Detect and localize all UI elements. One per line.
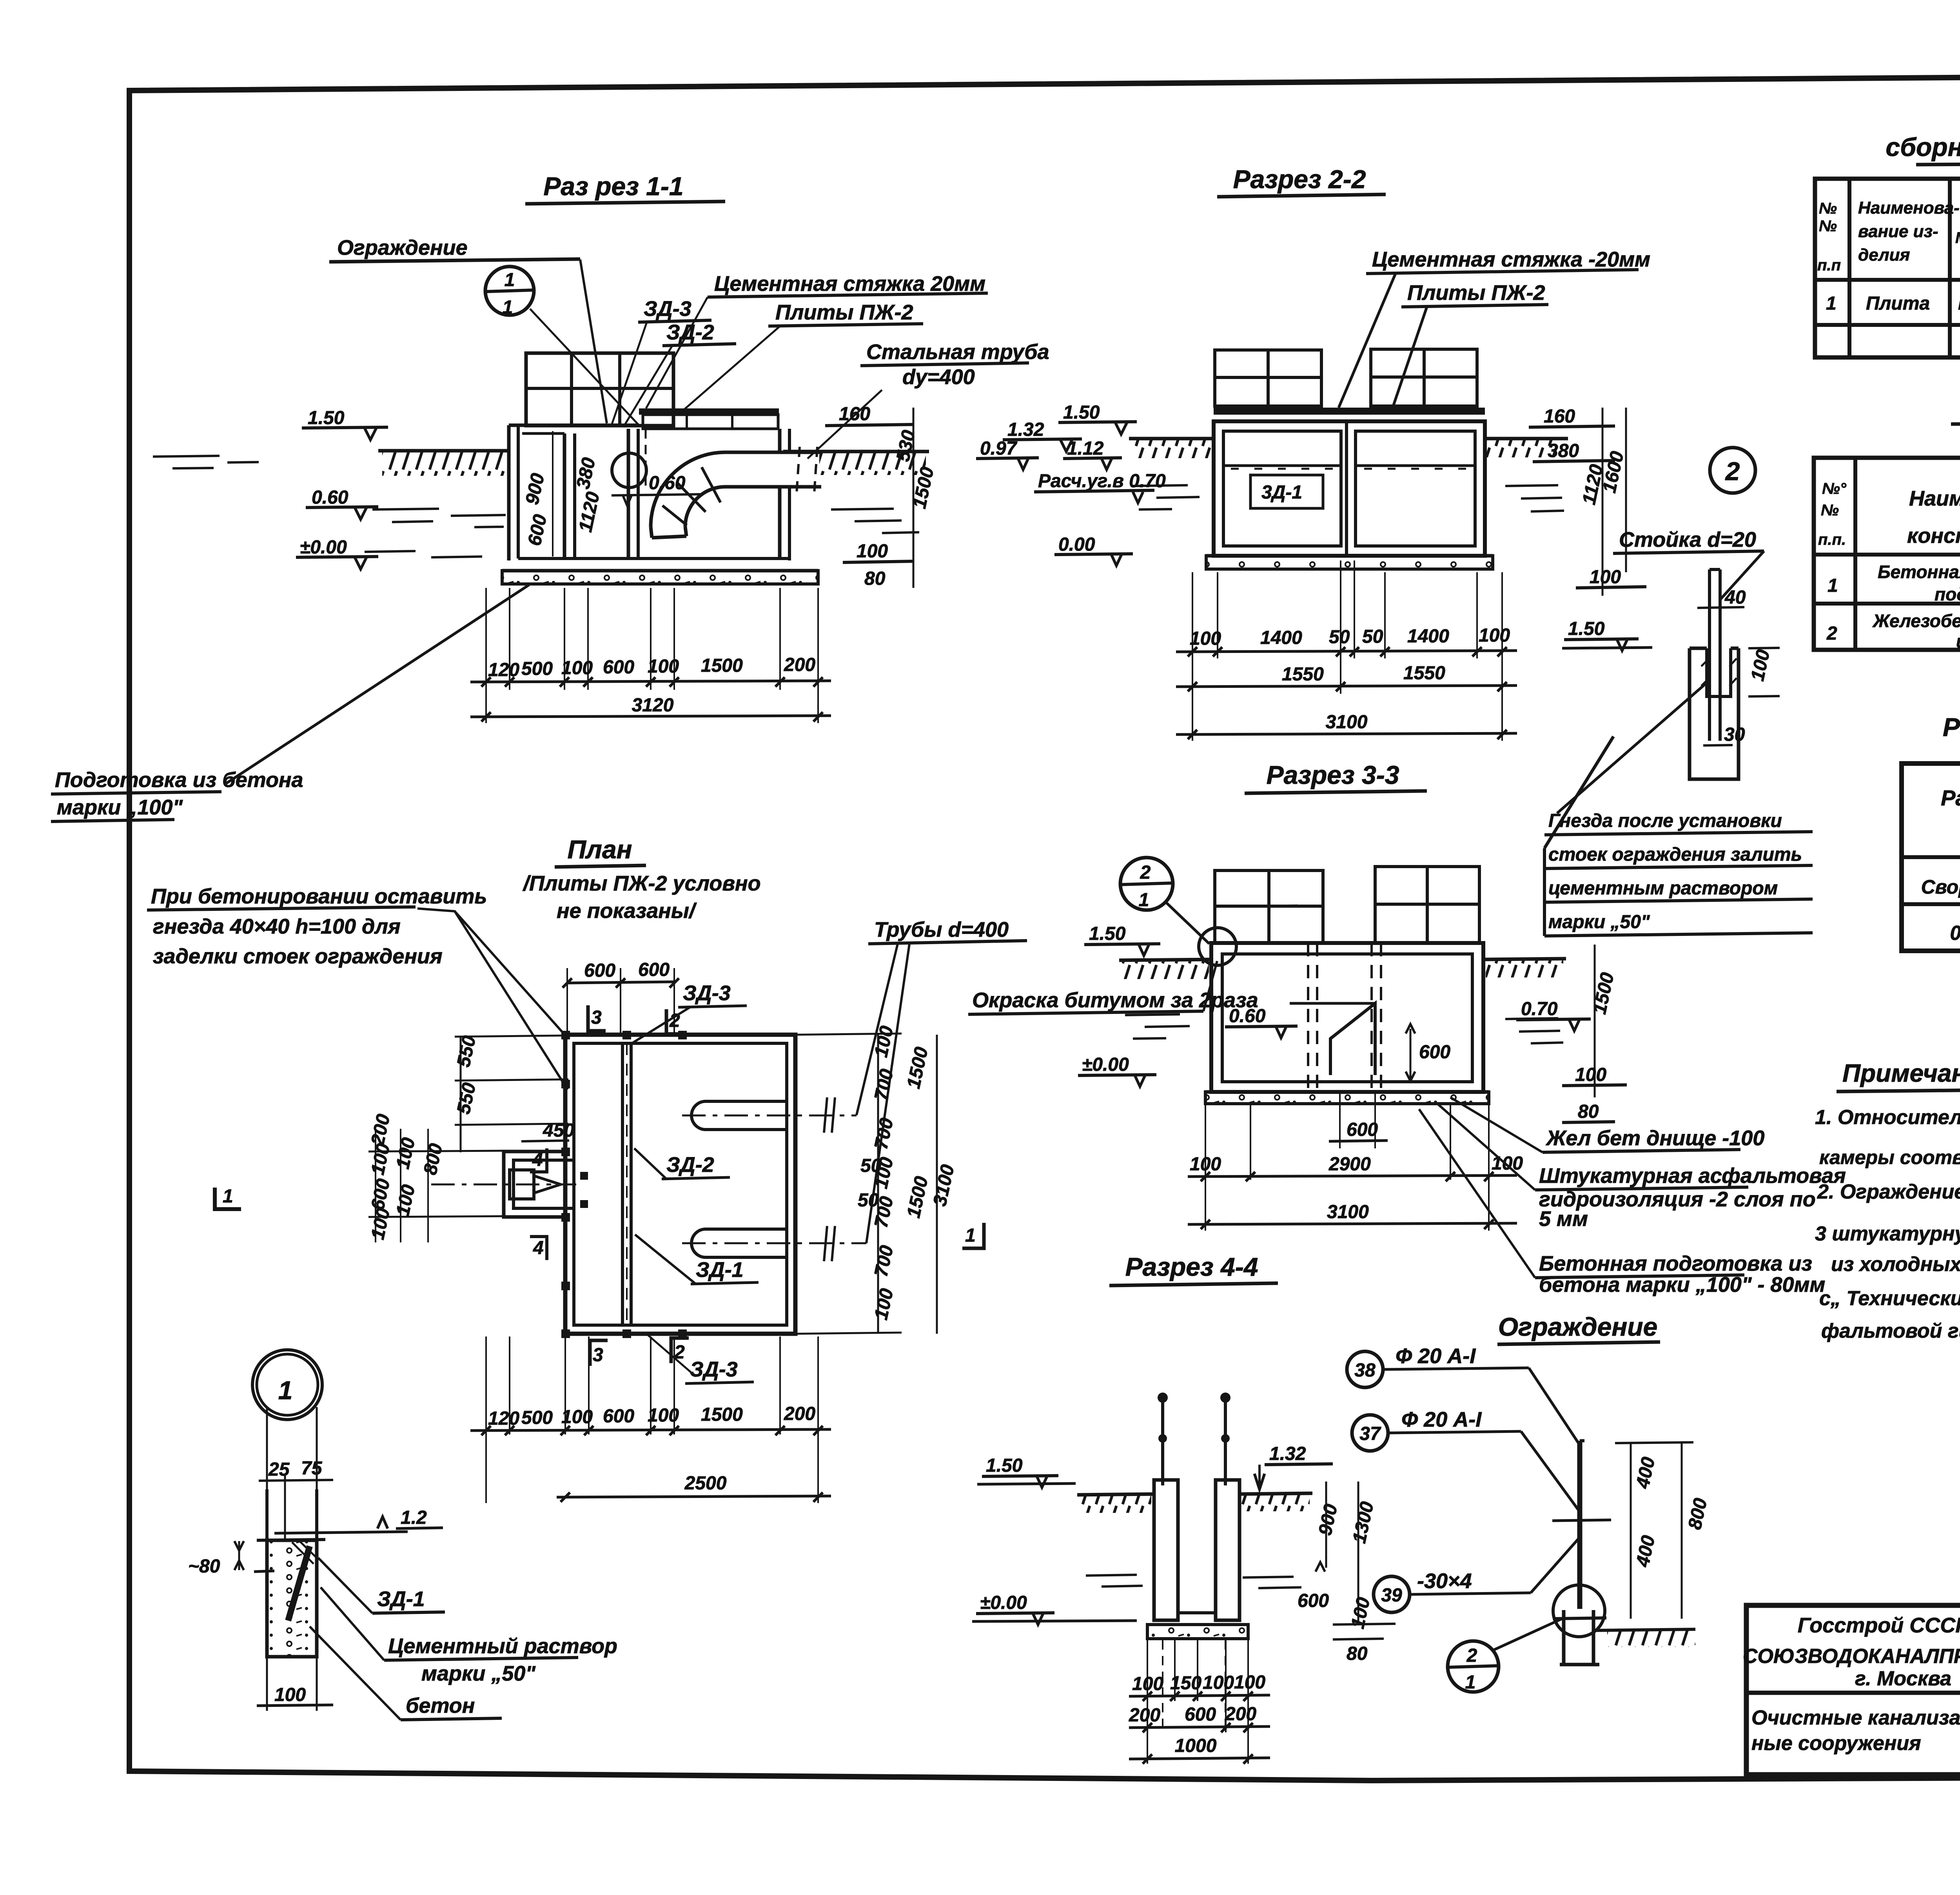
- svg-text:0.60: 0.60: [649, 473, 686, 493]
- svg-text:сборных железобетонных элеме: сборных железобетонных элементов: [1886, 132, 1960, 161]
- svg-text:не показаны/: не показаны/: [557, 899, 697, 923]
- svg-text:5 мм: 5 мм: [1539, 1207, 1588, 1231]
- svg-text:160: 160: [839, 404, 870, 424]
- svg-text:ЗД-2: ЗД-2: [666, 1153, 714, 1177]
- svg-text:2500: 2500: [684, 1473, 727, 1494]
- svg-text:Примечания:: Примечания:: [1842, 1059, 1960, 1087]
- svg-text:Сворного: Сворного: [1921, 876, 1960, 898]
- svg-text:Бетонная подготовка: Бетонная подготовка: [1878, 562, 1960, 582]
- svg-text:100: 100: [1234, 1672, 1265, 1693]
- svg-text:бетона марки „100" - 80мм: бетона марки „100" - 80мм: [1539, 1273, 1825, 1297]
- svg-text:1500: 1500: [701, 655, 743, 676]
- svg-text:марки „50": марки „50": [421, 1662, 536, 1685]
- svg-text:80: 80: [864, 568, 886, 589]
- svg-text:80: 80: [1578, 1101, 1599, 1122]
- svg-text:Ф 20 А-I: Ф 20 А-I: [1396, 1344, 1476, 1368]
- svg-text:ЗД-1: ЗД-1: [377, 1587, 425, 1611]
- svg-text:600: 600: [1298, 1590, 1329, 1611]
- svg-text:бетон: бетон: [406, 1694, 475, 1717]
- svg-text:1: 1: [1828, 575, 1838, 596]
- svg-text:Цементная стяжка -20мм: Цементная стяжка -20мм: [1372, 248, 1650, 271]
- svg-text:100: 100: [1190, 1154, 1221, 1175]
- svg-text:600: 600: [603, 1406, 634, 1427]
- svg-text:2: 2: [1466, 1645, 1477, 1666]
- svg-text:Ограждение: Ограждение: [337, 236, 468, 259]
- svg-text:1.50: 1.50: [1568, 618, 1605, 639]
- svg-text:600: 600: [603, 657, 634, 678]
- svg-text:150: 150: [1170, 1673, 1201, 1694]
- svg-text:±0.00: ±0.00: [980, 1592, 1027, 1613]
- svg-text:120: 120: [488, 660, 519, 680]
- svg-text:Плиты ПЖ-2: Плиты ПЖ-2: [775, 301, 913, 324]
- svg-text:2: 2: [1826, 623, 1837, 644]
- svg-text:50: 50: [860, 1155, 882, 1176]
- svg-text:120: 120: [488, 1408, 519, 1429]
- svg-text:200: 200: [784, 1404, 815, 1424]
- svg-text:37: 37: [1359, 1424, 1381, 1444]
- svg-text:±0.00: ±0.00: [300, 537, 347, 558]
- svg-text:3120: 3120: [632, 695, 674, 716]
- svg-text:Стальная труба: Стальная труба: [866, 340, 1049, 364]
- svg-text:75: 75: [301, 1458, 323, 1479]
- svg-text:100: 100: [1590, 567, 1621, 588]
- svg-text:№: №: [1819, 218, 1837, 235]
- svg-text:ЗД-3: ЗД-3: [690, 1358, 738, 1381]
- svg-text:1.50: 1.50: [1089, 923, 1126, 944]
- svg-text:1: 1: [1139, 890, 1149, 910]
- svg-text:ЗД-1: ЗД-1: [696, 1258, 744, 1282]
- svg-text:п.п.: п.п.: [1818, 531, 1846, 548]
- svg-text:ные сооружения: ные сооружения: [1751, 1732, 1921, 1755]
- svg-text:вание из-: вание из-: [1858, 222, 1938, 241]
- svg-text:Марка: Марка: [1955, 229, 1960, 247]
- svg-text:Разрез 3-3: Разрез 3-3: [1267, 760, 1399, 789]
- svg-text:Госстрой СССР: Госстрой СССР: [1798, 1614, 1960, 1637]
- svg-text:фальтовой гидроизоляции,‘ и: фальтовой гидроизоляции,‘ и безрулонных …: [1821, 1320, 1960, 1342]
- svg-text:2: 2: [1725, 457, 1740, 486]
- svg-text:39: 39: [1381, 1585, 1402, 1606]
- svg-text:гнезда 40×40 h=100 для: гнезда 40×40 h=100 для: [153, 915, 401, 938]
- svg-text:под днище: под днище: [1935, 584, 1960, 604]
- svg-text:40: 40: [1724, 587, 1746, 608]
- svg-text:Расход основных материалов: Расход основных материалов: [1943, 713, 1960, 742]
- svg-text:Ф 20 А-I: Ф 20 А-I: [1401, 1408, 1482, 1431]
- svg-text:50: 50: [858, 1190, 879, 1211]
- svg-text:100: 100: [857, 541, 888, 562]
- svg-text:При бетонировании оставить: При бетонировании оставить: [151, 885, 487, 908]
- svg-text:3100: 3100: [1326, 712, 1368, 733]
- svg-text:100: 100: [561, 1407, 593, 1427]
- svg-text:±0.00: ±0.00: [1082, 1054, 1129, 1075]
- svg-text:Очистные канализацион-: Очистные канализацион-: [1751, 1706, 1960, 1729]
- svg-text:Жел бет днище -100: Жел бет днище -100: [1545, 1126, 1764, 1150]
- svg-text:3100: 3100: [1327, 1202, 1369, 1222]
- svg-text:Ограждение: Ограждение: [1498, 1312, 1658, 1341]
- svg-text:Подготовка из бетона: Подготовка из бетона: [55, 768, 303, 792]
- svg-text:0.00: 0.00: [1058, 534, 1095, 555]
- svg-text:1.32: 1.32: [1269, 1443, 1306, 1464]
- svg-text:600: 600: [1347, 1119, 1378, 1140]
- svg-text:1.50: 1.50: [986, 1455, 1023, 1476]
- svg-text:100: 100: [1132, 1674, 1163, 1694]
- svg-text:600: 600: [638, 959, 670, 980]
- svg-text:30: 30: [1724, 724, 1745, 745]
- svg-text:Бетонная подготовка из: Бетонная подготовка из: [1539, 1252, 1812, 1275]
- svg-text:Гнезда после установки: Гнезда после установки: [1548, 811, 1782, 831]
- svg-text:1: 1: [1826, 293, 1837, 314]
- svg-text:1550: 1550: [1282, 664, 1324, 685]
- svg-text:50: 50: [1362, 626, 1383, 647]
- svg-text:Раз рез 1-1: Раз рез 1-1: [543, 172, 683, 201]
- svg-text:100: 100: [648, 656, 679, 677]
- svg-text:500: 500: [521, 1407, 553, 1428]
- svg-text:380: 380: [1548, 441, 1579, 461]
- svg-text:1.12: 1.12: [1067, 438, 1104, 459]
- svg-text:ЗД-2: ЗД-2: [666, 321, 714, 344]
- svg-text:1.32: 1.32: [1007, 419, 1044, 440]
- svg-text:п.п: п.п: [1817, 257, 1841, 274]
- svg-text:4: 4: [533, 1238, 544, 1258]
- svg-text:1500: 1500: [701, 1404, 743, 1425]
- svg-text:г. Москва: г. Москва: [1855, 1667, 1951, 1690]
- svg-text:200: 200: [1225, 1704, 1256, 1725]
- svg-text:делия: делия: [1858, 245, 1910, 265]
- svg-text:100: 100: [274, 1685, 306, 1705]
- svg-text:600: 600: [584, 960, 615, 981]
- svg-text:~80: ~80: [188, 1556, 220, 1577]
- svg-text:38: 38: [1354, 1360, 1376, 1381]
- svg-text:50: 50: [1329, 627, 1350, 647]
- svg-text:160: 160: [1544, 406, 1575, 427]
- svg-text:3 штукатурную асфальтовую г: 3 штукатурную асфальтовую гидроизоляцию …: [1815, 1222, 1960, 1245]
- svg-text:0.70: 0.70: [1521, 999, 1558, 1019]
- svg-text:Цементный раствор: Цементный раствор: [388, 1634, 617, 1658]
- svg-text:цементным раствором: цементным раствором: [1548, 878, 1778, 899]
- svg-text:1: 1: [505, 270, 515, 290]
- svg-text:из холодных /эмульсионных/: из холодных /эмульсионных/ мастик в соот…: [1831, 1253, 1960, 1276]
- svg-text:1400: 1400: [1407, 626, 1449, 647]
- svg-text:ЗД-3: ЗД-3: [644, 297, 691, 321]
- svg-text:конструкций: конструкций: [1907, 524, 1960, 548]
- svg-text:№: №: [1819, 200, 1837, 217]
- svg-text:с„ Техническими правилами у: с„ Техническими правилами устройство хол…: [1819, 1287, 1960, 1310]
- svg-text:3Д-1: 3Д-1: [1261, 482, 1302, 503]
- svg-text:200: 200: [784, 655, 815, 675]
- svg-text:200: 200: [1129, 1705, 1160, 1726]
- svg-text:1: 1: [278, 1376, 293, 1405]
- svg-text:1.50: 1.50: [1063, 402, 1100, 423]
- svg-text:марки „50": марки „50": [1548, 912, 1650, 932]
- svg-text:Окраска битумом за 2раза: Окраска битумом за 2раза: [972, 988, 1258, 1012]
- svg-text:ЗД-3: ЗД-3: [683, 981, 731, 1005]
- svg-text:100: 100: [1575, 1064, 1606, 1085]
- svg-text:0.97: 0.97: [980, 438, 1018, 459]
- svg-text:2900: 2900: [1328, 1154, 1371, 1175]
- svg-text:Разрез 4-4: Разрез 4-4: [1125, 1252, 1258, 1281]
- svg-text:Цементная стяжка 20мм: Цементная стяжка 20мм: [714, 272, 985, 296]
- svg-text:марки „100": марки „100": [57, 796, 183, 819]
- svg-text:Расход железобе-: Расход железобе-: [1941, 785, 1960, 810]
- svg-text:СОЮЗВОДОКАНАЛПРОЕКТ: СОЮЗВОДОКАНАЛПРОЕКТ: [1743, 1645, 1960, 1668]
- svg-text:3: 3: [591, 1007, 602, 1028]
- svg-text:заделки стоек ограждения: заделки стоек ограждения: [153, 945, 443, 968]
- svg-text:450: 450: [543, 1120, 574, 1141]
- svg-text:1.50: 1.50: [308, 408, 345, 428]
- svg-text:4: 4: [532, 1150, 543, 1170]
- svg-text:600: 600: [1419, 1042, 1450, 1063]
- svg-text:3: 3: [593, 1345, 603, 1365]
- svg-text:500: 500: [521, 658, 553, 679]
- svg-text:0,21: 0,21: [1950, 922, 1960, 945]
- svg-text:План: План: [567, 835, 632, 864]
- svg-text:100: 100: [1479, 625, 1510, 646]
- svg-text:100: 100: [1190, 628, 1221, 649]
- svg-text:Штукатурная асфальтовая: Штукатурная асфальтовая: [1539, 1164, 1846, 1188]
- svg-text:Трубы d=400: Трубы d=400: [874, 918, 1009, 941]
- svg-text:Разрез 2-2: Разрез 2-2: [1233, 165, 1366, 194]
- svg-text:стоек ограждения залить: стоек ограждения залить: [1548, 844, 1802, 865]
- svg-text:80: 80: [1347, 1643, 1368, 1664]
- svg-text:0.60: 0.60: [312, 487, 348, 508]
- svg-text:/Плиты ПЖ-2 условно: /Плиты ПЖ-2 условно: [523, 872, 761, 895]
- svg-text:Расч.уг.в 0.70: Расч.уг.в 0.70: [1038, 471, 1166, 491]
- svg-text:1550: 1550: [1403, 663, 1445, 684]
- svg-text:1.2: 1.2: [401, 1507, 427, 1528]
- svg-text:1400: 1400: [1260, 627, 1302, 648]
- svg-text:1: 1: [1465, 1672, 1476, 1693]
- svg-text:1. Относительная отметка ± 0.: 1. Относительная отметка ± 0.00 Верха дн…: [1815, 1106, 1960, 1129]
- svg-text:Железобетонные стены: Железобетонные стены: [1872, 611, 1960, 631]
- svg-text:100: 100: [648, 1405, 679, 1426]
- svg-text:№°: №°: [1822, 480, 1847, 497]
- svg-text:25: 25: [268, 1459, 290, 1480]
- svg-text:100: 100: [561, 658, 593, 678]
- svg-text:№: №: [1821, 502, 1839, 519]
- svg-text:и днище: и днище: [1956, 631, 1960, 651]
- svg-text:Наименова-: Наименова-: [1858, 198, 1960, 218]
- svg-text:1: 1: [503, 297, 513, 318]
- svg-text:-30×4: -30×4: [1417, 1569, 1472, 1593]
- svg-text:600: 600: [1185, 1704, 1216, 1725]
- svg-text:1: 1: [223, 1186, 233, 1207]
- svg-text:Стойка d=20: Стойка d=20: [1619, 528, 1756, 551]
- svg-text:Наименование .: Наименование .: [1909, 487, 1960, 510]
- svg-text:2: 2: [1140, 862, 1151, 883]
- svg-text:100: 100: [1203, 1672, 1234, 1693]
- svg-text:Плита: Плита: [1866, 293, 1930, 314]
- svg-text:dy=400: dy=400: [902, 365, 975, 389]
- svg-text:1000: 1000: [1175, 1735, 1217, 1756]
- svg-text:Плиты ПЖ-2: Плиты ПЖ-2: [1407, 281, 1545, 305]
- svg-text:ПЖ-2: ПЖ-2: [1958, 293, 1960, 314]
- svg-text:1: 1: [965, 1225, 976, 1246]
